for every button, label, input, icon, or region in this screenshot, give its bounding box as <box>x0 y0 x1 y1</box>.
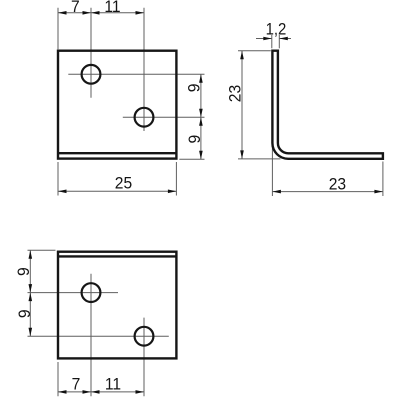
arrow right tip (144,391.9) <box>136 390 145 394</box>
extension line bottom edge for 9 <box>179 158 204 160</box>
arrow left tip (272.4,191.6) <box>272 190 281 194</box>
arrow down tip (30.3,336.2) <box>29 328 33 337</box>
dimension line 7/11 <box>58 12 144 14</box>
dimension line 9/9 vertical <box>200 74 202 159</box>
svg-text:9: 9 <box>185 135 204 144</box>
extension line left for bottom 23 <box>271 144 273 197</box>
extension line top for 23 left <box>238 50 271 52</box>
arrow left tip (58,391.9) <box>58 390 67 394</box>
arrow bowtie at x91 <box>83 11 92 15</box>
dimension line 25 <box>58 190 176 192</box>
center/extension line x144 (hole2 vertical) <box>143 8 145 131</box>
arrow up tip (30.3,250.3) <box>29 250 33 258</box>
arrow left tip (279,38.5) <box>279 37 288 41</box>
center line hole2 horizontal / ext <box>28 335 169 337</box>
arrow right tip (271.8,38.5) <box>263 37 272 41</box>
bend tangent line bottom view <box>58 255 176 257</box>
extension line top for 9 <box>28 249 56 251</box>
arrow right tip x144 <box>136 11 145 15</box>
plate outline bottom view <box>58 252 176 359</box>
svg-text:7: 7 <box>72 375 81 394</box>
arrow up tip (200.9,74.3) <box>199 74 203 83</box>
arrow down tip (242,158.9) <box>240 150 244 159</box>
center/extension line x91 (hole1 vertical) <box>90 8 92 98</box>
arrow right tip (382.9,191.6) <box>374 190 383 194</box>
arrow bowtie at (30.3,292.6) <box>29 284 33 293</box>
arrow bowtie at (200.9,117.2) <box>199 109 203 118</box>
dimension line 23 bottom <box>272 191 383 193</box>
svg-text:11: 11 <box>104 0 120 16</box>
svg-text:23: 23 <box>226 85 245 102</box>
svg-text:11: 11 <box>105 375 121 394</box>
dimension line 23 left <box>241 51 243 159</box>
plate outline front view <box>58 51 176 159</box>
center/extension line x91 vertical <box>90 274 92 396</box>
extension line bottom for 23 left <box>238 158 281 160</box>
arrow left tip x58 <box>58 11 67 15</box>
arrow up tip (242,50.7) <box>240 51 244 60</box>
hole1 front view <box>82 65 101 84</box>
arrow down tip (200.9,159.2) <box>199 151 203 160</box>
L-profile outline <box>272 51 383 159</box>
dimension line 1,2 right part <box>279 38 291 40</box>
svg-text:9: 9 <box>14 267 33 276</box>
center line hole1 horizontal / ext <box>28 292 119 294</box>
extension lines for 25 <box>57 162 59 196</box>
hole1 bottom view <box>82 283 101 302</box>
arrow right tip (176.4,191.3) <box>168 190 177 194</box>
svg-text:25: 25 <box>115 174 132 193</box>
extension lines 1,2 <box>271 35 273 48</box>
hole2 bottom view <box>135 327 154 346</box>
svg-text:9: 9 <box>185 84 204 93</box>
extension line x58 top <box>57 8 59 49</box>
extension line x58 bottom <box>57 362 59 396</box>
center/extension line x144 vertical <box>143 318 145 397</box>
svg-text:1,2: 1,2 <box>266 21 287 39</box>
bend tangent line front view <box>58 152 176 154</box>
svg-text:7: 7 <box>71 0 80 16</box>
hole2 front view <box>135 108 154 127</box>
center line hole1 horizontal / ext for 9 <box>68 73 204 75</box>
dimension line 7/11 bottom <box>58 391 144 393</box>
svg-text:23: 23 <box>329 175 346 194</box>
arrow left tip (58,191.3) <box>58 190 67 194</box>
center line hole2 horizontal / ext for 9 <box>123 116 205 118</box>
extension line right for bottom 23 <box>382 162 384 197</box>
dimension line 1,2 left part <box>256 38 272 40</box>
svg-text:9: 9 <box>15 309 34 318</box>
dimension line 9/9 vertical left <box>29 250 31 336</box>
arrow bowtie at (91,391.9) <box>83 390 92 394</box>
